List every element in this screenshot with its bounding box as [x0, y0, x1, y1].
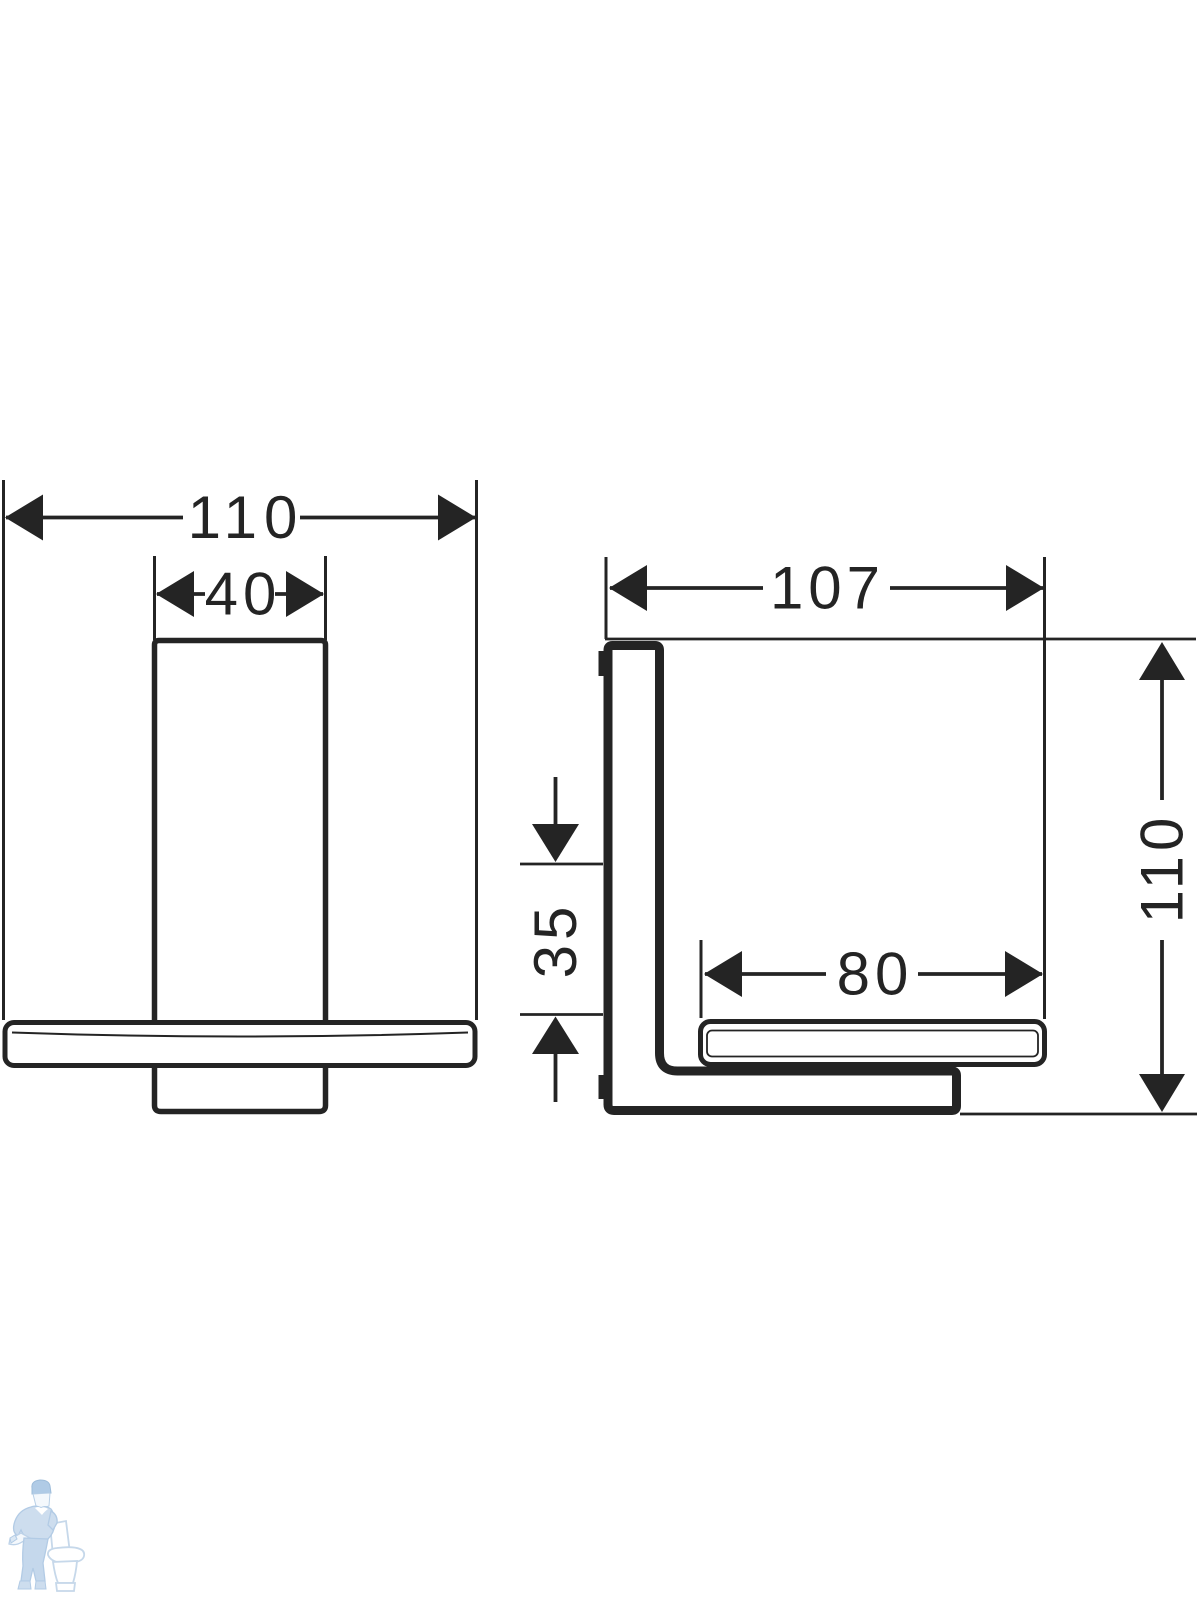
arrowhead 107 right [1006, 565, 1044, 611]
shelf bar side view [701, 1022, 1045, 1065]
thin bottom line at arm level [960, 1113, 1197, 1116]
arrowhead 110 left [5, 495, 43, 541]
shelf bar side inner rect [707, 1031, 1038, 1057]
dim line 40 left segment [157, 592, 205, 596]
L-profile bracket side view [608, 646, 957, 1111]
toilet base [56, 1583, 75, 1591]
plumber right arm on tank [48, 1511, 57, 1530]
35 dim upper arrowhead [532, 824, 579, 862]
toilet pedestal [53, 1561, 77, 1583]
toilet tank [50, 1521, 70, 1556]
svg-text:107: 107 [770, 555, 885, 622]
svg-text:40: 40 [205, 561, 282, 628]
35 dim upper arrow line [554, 777, 558, 828]
plumber wrench [10, 1535, 17, 1543]
extension line right of 107 dim (shared with 80 dim) [1043, 557, 1046, 1019]
arrowhead 107 left [609, 565, 647, 611]
arrowhead 110 side top [1139, 642, 1185, 680]
arrowhead 110 side bottom [1139, 1074, 1185, 1112]
back plate nub bottom [599, 1075, 606, 1099]
plumber trousers [21, 1538, 48, 1581]
svg-text:110: 110 [1129, 813, 1196, 924]
svg-text:80: 80 [837, 941, 914, 1008]
toilet bowl seat [48, 1547, 84, 1563]
110 side dim line upper segment [1160, 680, 1164, 800]
dim line 110 left segment [6, 516, 183, 520]
dim line 107 right segment [890, 586, 1043, 590]
arrowhead 40 right [286, 571, 324, 617]
extension line left of 107 dim [605, 557, 608, 639]
arrowhead 80 right [1005, 951, 1043, 997]
plumber jacket body [14, 1506, 55, 1540]
svg-text:35: 35 [522, 902, 589, 979]
arrowhead 40 left [156, 571, 194, 617]
110 side dim line lower segment [1160, 940, 1164, 1074]
back plate nub top [599, 651, 606, 676]
plumber left arm with wrench [9, 1533, 30, 1545]
shelf bar front inner edge line [12, 1033, 468, 1037]
thin top line of wall profile [605, 638, 1196, 641]
dim line 40 right segment [275, 592, 323, 596]
square tube front view [155, 641, 326, 1021]
35 dim lower arrowhead [532, 1017, 579, 1055]
35 dim lower tick [520, 1013, 603, 1016]
dim line 80 right segment [918, 972, 1042, 976]
plumber boots [18, 1581, 31, 1589]
extension line left of 40 dim [153, 556, 156, 640]
arrowhead 110 right [438, 495, 476, 541]
shelf bar front view [5, 1023, 475, 1066]
svg-text:110: 110 [188, 484, 305, 551]
plumber cap [32, 1480, 51, 1494]
extension line right of 40 dim [324, 556, 327, 640]
plumber jacket collar highlight [35, 1507, 48, 1515]
dim line 80 left segment [705, 972, 826, 976]
dim line 110 right segment [300, 516, 475, 520]
dim line 107 left segment [610, 586, 763, 590]
80 dim extension line left [700, 940, 703, 1018]
arrowhead 80 left [704, 951, 742, 997]
plumber face [33, 1493, 50, 1508]
35 dim upper tick [520, 863, 603, 866]
extension line right of 110 dim [475, 480, 478, 1020]
tube tab below bar front view [155, 1068, 326, 1112]
plumber bowtie [38, 1508, 46, 1515]
extension line left of 110 dim [2, 480, 5, 1020]
35 dim lower arrow line [554, 1054, 558, 1102]
